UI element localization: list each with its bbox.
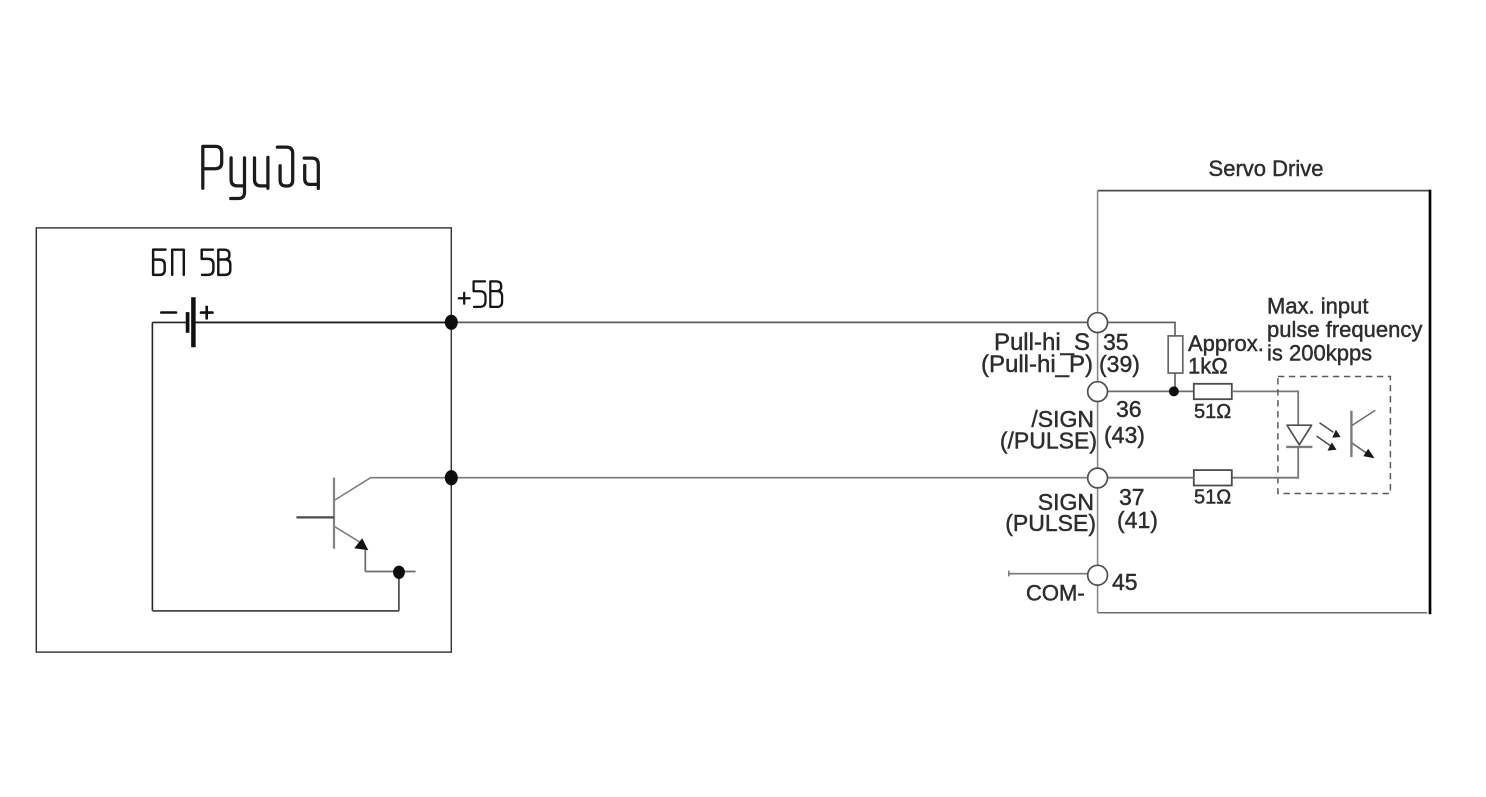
- optocoupler phototransistor base bar: [1350, 411, 1352, 457]
- transistor Q1 base lead: [296, 516, 334, 518]
- wire: SIGN collector to servo pin 37: [371, 477, 1088, 479]
- wire: left vertical down: [151, 322, 153, 611]
- wire: +5V node to servo pin 35: [451, 321, 1087, 323]
- svg-text:is 200kpps: is 200kpps: [1267, 341, 1372, 366]
- battery BT1 minus sign: [161, 311, 176, 314]
- pin circle 36: [1088, 382, 1108, 402]
- phototransistor emitter: [1352, 443, 1367, 453]
- wire: pin35 to 1k resistor: [1108, 322, 1176, 336]
- Servo Drive box top edge: [1098, 190, 1429, 192]
- optocoupler LED D1 cathode bar: [1286, 446, 1312, 448]
- svg-text:1kΩ: 1kΩ: [1188, 354, 1228, 379]
- junction: +5V node dot: [445, 315, 458, 330]
- transistor Q1 base bar: [333, 478, 335, 549]
- svg-text:(Pull-hi_P): (Pull-hi_P): [981, 351, 1093, 378]
- pin circle 35: [1088, 313, 1108, 333]
- wire: emitter node vertical: [398, 572, 400, 611]
- pin circle 37: [1088, 468, 1108, 488]
- svg-text:45: 45: [1112, 569, 1138, 595]
- svg-text:51Ω: 51Ω: [1194, 401, 1231, 423]
- COM- lead end tick: [1008, 571, 1010, 577]
- wire: 1k resistor to node: [1174, 373, 1176, 391]
- wire: emitter horizontal stub: [365, 571, 415, 573]
- title Руида (logo text, drawn strokes): [203, 146, 318, 198]
- wire: pin36 row: [1108, 390, 1194, 392]
- Servo Drive box left edge: [1097, 191, 1099, 613]
- optocoupler dashed box: [1278, 377, 1391, 494]
- Ruida controller box: [36, 228, 451, 652]
- svg-text:36: 36: [1116, 396, 1142, 422]
- junction: 1k/36 node dot: [1169, 386, 1179, 396]
- svg-text:Approx.: Approx.: [1188, 331, 1264, 356]
- battery BT1 negative plate: [186, 312, 190, 333]
- resistor R1 Approx. 1kΩ: [1168, 336, 1183, 373]
- battery BT1 positive plate: [191, 297, 196, 347]
- wire: R2 to LED anode: [1232, 391, 1298, 425]
- Servo Drive box bottom edge: [1098, 612, 1428, 614]
- wire: COM- lead: [1009, 573, 1088, 575]
- transistor Q1 emitter arrow: [354, 538, 368, 550]
- svg-text:51Ω: 51Ω: [1194, 487, 1231, 509]
- optocoupler LED D1 triangle: [1287, 425, 1312, 445]
- wire: R3 to pin37: [1108, 477, 1194, 479]
- wire: +5V from battery to node: [196, 321, 452, 323]
- svg-text:COM-: COM-: [1026, 581, 1085, 606]
- wire: bottom horizontal: [152, 610, 399, 612]
- resistor R3 51Ω: [1194, 470, 1232, 485]
- svg-text:Servo Drive: Servo Drive: [1209, 156, 1324, 181]
- transistor Q1 collector diagonal: [335, 477, 371, 500]
- svg-text:(43): (43): [1104, 422, 1145, 448]
- label БП 5В (power supply 5V, drawn strokes): [153, 250, 230, 275]
- phototransistor emitter arrow: [1363, 449, 1374, 459]
- Servo Drive box right edge (thick): [1429, 190, 1432, 615]
- wire: LED cathode down: [1232, 447, 1298, 478]
- optocoupler light arrow 2: [1317, 436, 1331, 446]
- junction: emitter node dot: [393, 566, 405, 579]
- svg-text:(/PULSE): (/PULSE): [1000, 428, 1097, 454]
- svg-text:(41): (41): [1117, 507, 1158, 533]
- optocoupler light arrow 1: [1320, 423, 1334, 433]
- wire: battery minus to left loop: [152, 321, 186, 323]
- battery BT1 plus sign: [201, 307, 213, 319]
- transistor Q1 emitter diagonal: [335, 527, 360, 542]
- svg-text:(39): (39): [1099, 351, 1140, 377]
- svg-text:(PULSE): (PULSE): [1005, 510, 1096, 536]
- resistor R2 51Ω: [1194, 384, 1232, 399]
- wire: emitter drop: [364, 550, 366, 572]
- pin circle 45: [1088, 565, 1108, 585]
- phototransistor collector: [1352, 410, 1375, 425]
- svg-text:pulse frequency: pulse frequency: [1267, 317, 1422, 342]
- node label +5В (drawn strokes): [459, 281, 502, 307]
- junction: SIGN node dot: [445, 470, 458, 485]
- svg-text:Max. input: Max. input: [1267, 294, 1369, 319]
